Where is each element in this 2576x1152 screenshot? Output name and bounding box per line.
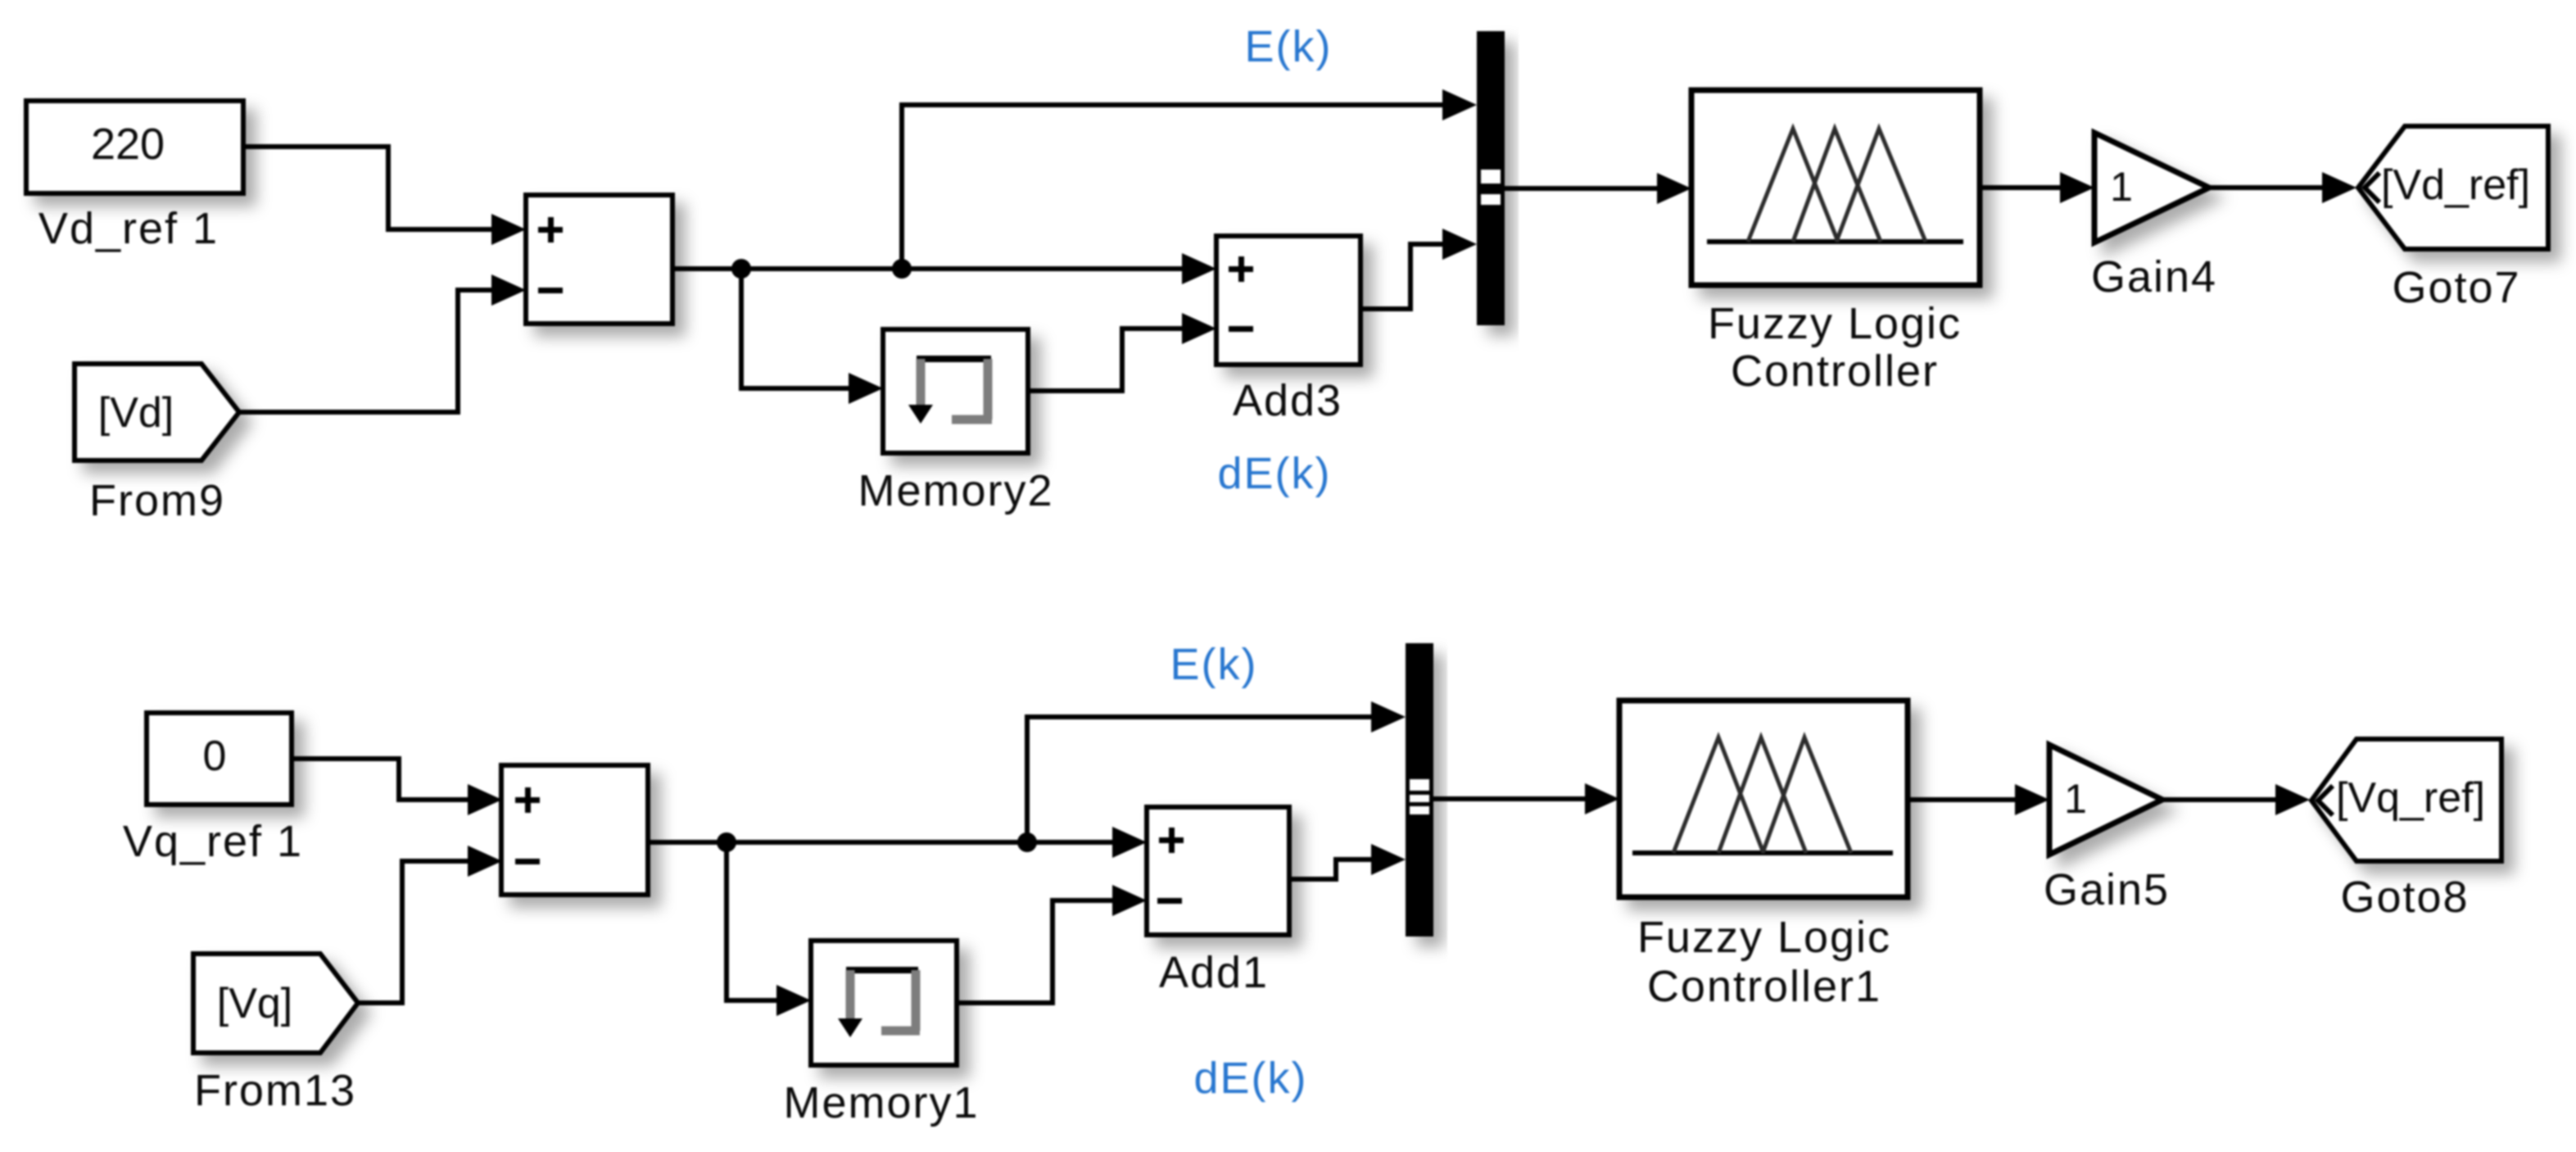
goto tag Goto8 [Vq_ref]: [2311, 739, 2501, 861]
wire FLC output to Gain4: [1980, 172, 2094, 203]
svg-text:Goto7: Goto7: [2392, 263, 2520, 312]
wire junction up to Mux1 top input (E(k)): [902, 89, 1477, 269]
svg-text:E(k): E(k): [1245, 22, 1333, 71]
sum block Add3: [1216, 236, 1360, 365]
sum block Sum2: [501, 765, 648, 895]
wire junction down to Memory2 input: [741, 269, 883, 404]
wire 220 to Sum1 plus input: [243, 147, 526, 245]
svg-text:Fuzzy Logic: Fuzzy Logic: [1708, 299, 1962, 348]
wire Memory1 output to Add1 minus input: [957, 885, 1147, 1003]
sum block Add1: [1147, 807, 1289, 935]
fuzzy logic controller block U1: [1691, 90, 1980, 285]
wire From9 to Sum1 minus input: [239, 274, 526, 412]
junction node on Sum2 output: [717, 832, 736, 852]
memory block Memory2: [883, 329, 1028, 453]
svg-text:0: 0: [203, 732, 227, 780]
wire 0 to Sum2 plus input: [292, 759, 502, 815]
svg-text:Memory2: Memory2: [858, 466, 1053, 515]
svg-text:[Vq_ref]: [Vq_ref]: [2336, 774, 2485, 822]
svg-text:From13: From13: [194, 1066, 356, 1115]
svg-text:1: 1: [2064, 776, 2087, 822]
wire Memory2 output to Add3 minus input: [1028, 313, 1216, 391]
svg-text:Gain4: Gain4: [2091, 252, 2217, 302]
svg-text:Memory1: Memory1: [783, 1078, 979, 1127]
svg-text:Controller: Controller: [1731, 347, 1939, 396]
mux Mux1: [1477, 31, 1505, 325]
svg-text:Goto8: Goto8: [2340, 873, 2469, 922]
wire FLC1 output to Gain5: [1908, 784, 2049, 815]
svg-text:[Vd]: [Vd]: [98, 389, 174, 437]
memory block Memory1: [811, 941, 957, 1065]
wire Add3 output to Mux1 bottom input: [1360, 229, 1477, 309]
svg-text:Add1: Add1: [1159, 948, 1269, 997]
goto tag Goto7 [Vd_ref]: [2358, 126, 2548, 249]
wire From13 to Sum2 minus input: [358, 846, 502, 1003]
svg-text:dE(k): dE(k): [1193, 1054, 1307, 1103]
svg-text:Fuzzy Logic: Fuzzy Logic: [1637, 913, 1891, 962]
svg-text:Add3: Add3: [1233, 376, 1342, 425]
wire junction up to Mux2 top input (E(k)): [1027, 701, 1406, 842]
svg-text:Gain5: Gain5: [2044, 865, 2170, 914]
wire Sum1 output to Add3 plus input (E(k) line): [672, 253, 1216, 284]
junction node to E(k) branch row2: [1017, 832, 1037, 852]
junction node on Sum1 output: [731, 259, 751, 279]
constant block Vq_ref 1 (value 0): [147, 713, 292, 805]
svg-text:From9: From9: [89, 476, 225, 525]
junction node to E(k) branch: [892, 259, 912, 279]
mux Mux2: [1406, 643, 1433, 937]
fuzzy logic controller block U2: [1619, 701, 1908, 897]
wire Gain5 to Goto8: [2162, 784, 2310, 815]
svg-text:220: 220: [91, 120, 165, 169]
svg-text:Vq_ref 1: Vq_ref 1: [123, 817, 303, 866]
wire junction down to Memory1 input: [727, 842, 811, 1016]
From tag From13 [Vq]: [193, 954, 358, 1053]
gain block Gain4 (value 1): [2094, 133, 2209, 243]
From tag From9 [Vd]: [75, 364, 239, 460]
svg-text:[Vd_ref]: [Vd_ref]: [2381, 161, 2530, 209]
wire Sum2 output to Add1 plus input (E(k) line): [648, 827, 1147, 858]
svg-text:Vd_ref 1: Vd_ref 1: [38, 204, 219, 253]
wire Mux2 output to Fuzzy Logic Controller1: [1433, 783, 1619, 814]
wire Add1 output to Mux2 bottom input: [1289, 844, 1406, 879]
gain block Gain5 (value 1): [2049, 745, 2162, 855]
wire Gain4 to Goto7: [2209, 172, 2356, 203]
svg-text:E(k): E(k): [1170, 640, 1258, 689]
svg-text:Controller1: Controller1: [1647, 962, 1881, 1011]
svg-text:1: 1: [2110, 164, 2133, 210]
svg-text:dE(k): dE(k): [1217, 449, 1331, 498]
sum block Sum1: [526, 195, 672, 324]
constant block Vd_ref 1 (value 220): [26, 101, 243, 193]
svg-text:[Vq]: [Vq]: [217, 980, 293, 1027]
wire Mux1 output to Fuzzy Logic Controller: [1505, 173, 1691, 204]
